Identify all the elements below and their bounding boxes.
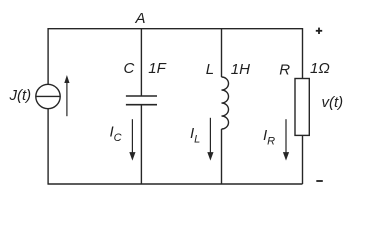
capacitor C [126, 96, 157, 105]
current label I_C [110, 124, 122, 145]
svg-text:A: A [135, 10, 146, 27]
label R [279, 61, 290, 78]
label J(t) [9, 87, 32, 104]
wire left vertical (bottom segment) [47, 109, 49, 185]
node A [135, 10, 146, 27]
svg-text:IR: IR [263, 127, 275, 148]
inductor L coil [222, 77, 229, 129]
plus polarity mark [316, 28, 322, 34]
current label I_L [190, 125, 200, 146]
wire capacitor branch (top) [140, 28, 142, 96]
source direction arrow (up) [64, 75, 69, 116]
svg-text:1Ω: 1Ω [310, 60, 330, 77]
svg-text:IC: IC [110, 124, 122, 145]
minus polarity mark [316, 180, 323, 182]
value 1H [231, 61, 250, 78]
arrow I_L (down) [207, 118, 213, 161]
label C [124, 60, 135, 77]
svg-text:C: C [124, 60, 135, 77]
svg-text:J(t): J(t) [9, 87, 32, 104]
label L [206, 61, 214, 78]
voltage label v(t) [322, 94, 344, 111]
svg-text:R: R [279, 61, 290, 78]
wire left vertical (top segment) [47, 28, 49, 85]
value 1F [148, 60, 166, 77]
svg-text:v(t): v(t) [322, 94, 344, 111]
svg-text:IL: IL [190, 125, 200, 146]
current source J(t) [36, 84, 60, 108]
arrow I_R (down) [283, 119, 289, 160]
svg-text:1H: 1H [231, 61, 250, 78]
value 1Ω [310, 60, 330, 77]
svg-text:1F: 1F [148, 60, 166, 77]
arrow I_C (down) [129, 119, 135, 160]
wire resistor branch (top) [302, 28, 304, 79]
svg-text:L: L [206, 61, 214, 78]
wire top rail [49, 28, 303, 30]
wire inductor branch (bottom) [221, 129, 223, 184]
wire capacitor branch (bottom) [140, 105, 142, 184]
wire bottom rail [49, 183, 303, 185]
current label I_R [263, 127, 275, 148]
resistor R body [295, 79, 309, 136]
wire inductor branch (top) [221, 28, 223, 77]
wire resistor branch (bottom) [302, 135, 304, 184]
